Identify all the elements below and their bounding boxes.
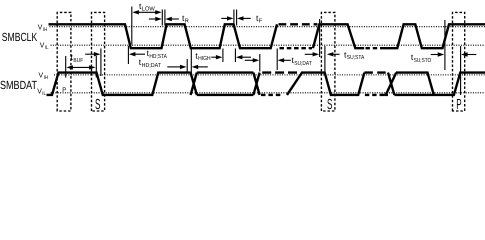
wire SMBDAT dashed low rail — [261, 94, 283, 96]
node VIL reference dotted line (SMBDAT) — [51, 92, 485, 94]
node label VIL (SMBDAT) — [37, 86, 46, 97]
node tBUF double arrow — [66, 65, 95, 69]
svg-text:V: V — [40, 40, 45, 49]
wire SMBCLK dashed high rail — [279, 23, 318, 25]
node tHD;STA dimension line left — [100, 49, 102, 77]
node tF arrow pair — [221, 16, 250, 20]
node tBUF dimension line right — [95, 56, 97, 78]
node tSU;DAT dimension line left — [259, 54, 261, 72]
svg-text:SMBDAT: SMBDAT — [0, 78, 37, 92]
node label VIH (SMBDAT) — [39, 70, 49, 81]
node label VIH (SMBCLK) — [38, 22, 48, 33]
node tSU;STO dimension line left — [444, 20, 446, 70]
wire SMBDAT low rail after X1 — [197, 94, 254, 96]
node label tBUF — [71, 52, 84, 64]
node tR arrow pair — [149, 17, 179, 21]
wire SMBDAT dashed high rail 2 — [364, 71, 388, 73]
svg-text:HIGH: HIGH — [198, 55, 211, 62]
node label tHD;DAT — [139, 57, 162, 69]
svg-text:BUF: BUF — [73, 57, 83, 64]
node tSU;STO dimension line right — [460, 46, 462, 95]
node label tSU;STA — [344, 50, 364, 62]
node tSU;STA dimension line right — [324, 46, 326, 73]
node tHIGH dimension line right — [234, 49, 236, 63]
svg-text:R: R — [185, 18, 189, 25]
svg-text:IH: IH — [43, 27, 48, 33]
node label VIL (SMBCLK) — [40, 40, 49, 51]
node label tHIGH — [195, 50, 210, 62]
node tHD;DAT arrow pair — [167, 65, 208, 69]
svg-text:IH: IH — [44, 75, 49, 81]
wire SMBDAT low rail to stop rise — [394, 73, 485, 95]
wire SMBCLK dashed low rail — [280, 47, 313, 49]
svg-text:P: P — [456, 97, 461, 113]
svg-text:IL: IL — [45, 45, 49, 51]
node tF dimension line pair — [234, 10, 237, 26]
svg-text:S: S — [95, 97, 101, 113]
svg-text:SU;STA: SU;STA — [347, 54, 365, 61]
node tSU;STA arrow pair — [305, 52, 340, 56]
node tSU;STO arrow pair — [431, 52, 477, 56]
node tBUF dimension line left — [65, 56, 67, 78]
node tHD;DAT dimension line right — [190, 48, 192, 74]
marker box P (stop, right) — [453, 12, 465, 111]
wire SMBCLK solid segment 1 — [49, 24, 278, 48]
wire SMBCLK dashed low rail 2 — [366, 47, 379, 49]
svg-text:S: S — [327, 97, 333, 113]
node tHIGH dimension line left — [222, 49, 224, 63]
svg-text:HD;STA: HD;STA — [149, 53, 167, 60]
wire SMBDAT crossover X3 — [386, 73, 396, 95]
node tSU;DAT dimension line right — [276, 49, 278, 71]
node label tF — [256, 13, 263, 25]
svg-text:F: F — [259, 18, 263, 25]
node tSU;DAT arrow pair — [245, 58, 291, 62]
wire SMBDAT crossover X2 — [253, 73, 259, 95]
node label tLOW — [139, 1, 155, 13]
wire SMBDAT high rail after X1 — [197, 71, 254, 73]
svg-text:LOW: LOW — [142, 6, 155, 13]
node tHIGH arrow pair — [211, 55, 251, 59]
node label tHD;STA — [147, 48, 167, 60]
wire SMBDAT solid segment 1 — [47, 73, 191, 95]
node label tSU;STO — [411, 52, 432, 64]
wire SMBDAT high rail after X3 — [396, 73, 434, 95]
node tHD;STA dimension line right — [127, 46, 129, 64]
wire SMBDAT rise into repeated-start high — [287, 73, 364, 95]
wire SMBDAT crossover X1 — [191, 73, 197, 95]
node tHD;STA arrow pair — [85, 52, 145, 56]
node tR dimension line pair — [162, 10, 165, 26]
svg-text:IL: IL — [42, 91, 46, 97]
marker box S (repeated start, middle) — [321, 12, 335, 111]
svg-text:V: V — [37, 86, 42, 95]
svg-text:SU;DAT: SU;DAT — [294, 60, 312, 67]
wire SMBDAT low rail solid before X3 — [381, 94, 389, 96]
wire SMBDAT dashed high rail — [262, 71, 299, 73]
svg-text:SU;STO: SU;STO — [414, 57, 432, 64]
node VIH reference dotted line (SMBDAT) — [54, 74, 485, 76]
wire SMBDAT dashed low rail 2 — [365, 94, 381, 96]
node tLOW double arrow — [132, 10, 161, 14]
node VIH reference dotted line (SMBCLK) — [50, 26, 485, 28]
wire SMBCLK solid segment 3 — [380, 24, 485, 48]
marker box P (stop, far left) — [57, 12, 71, 111]
wire SMBCLK solid segment 2 — [313, 24, 364, 48]
marker box S (start, left) — [92, 12, 105, 111]
svg-text:V: V — [39, 70, 44, 79]
svg-text:V: V — [38, 22, 43, 31]
svg-text:HD;DAT: HD;DAT — [142, 62, 162, 69]
node tHD;DAT dimension line left — [186, 59, 188, 73]
svg-text:P: P — [62, 87, 66, 94]
node tLOW dimension line left — [131, 7, 133, 45]
node VIL reference dotted line (SMBCLK) — [51, 44, 485, 46]
node label tSU;DAT — [292, 55, 313, 67]
node tSU;STA dimension line left — [319, 19, 321, 57]
node label tR — [182, 13, 189, 25]
svg-text:SMBCLK: SMBCLK — [2, 30, 37, 44]
